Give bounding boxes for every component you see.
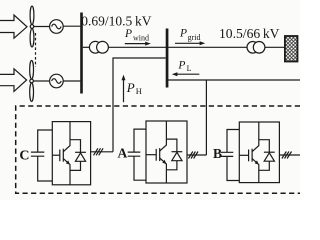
converter B box: [239, 122, 279, 183]
wire busbar to transformer T1: [83, 46, 90, 48]
converter A output wire: [187, 154, 206, 156]
wind turbine WT1 hub: [30, 25, 34, 29]
arrow P_L: [176, 73, 199, 75]
capacitor C1 plates: [31, 152, 44, 156]
IGBT Q-A emitter: [160, 158, 167, 183]
wind inflow arrow turbine 1: [0, 15, 27, 38]
IGBT Q-B body bar: [251, 149, 253, 162]
diode D-A triangle: [172, 152, 182, 160]
converter C output wire: [91, 151, 113, 153]
IGBT Q-C emitter: [63, 159, 70, 185]
diode D-A cathode bar: [172, 151, 183, 153]
branch wire to converter C (P_H path): [113, 58, 166, 152]
generator G2: [50, 74, 64, 88]
IGBT Q-A collector: [160, 121, 167, 151]
capacitor A plates: [128, 152, 141, 156]
svg-text:C: C: [19, 148, 29, 163]
IGBT Q-C gate bar: [59, 150, 61, 162]
arrow P_H: [123, 80, 125, 102]
diode D-A anode wire: [166, 161, 177, 170]
dashed enclosure energy storage system: [16, 106, 300, 193]
grid equivalent network: [285, 36, 298, 62]
IGBT Q-B emitter: [252, 159, 259, 183]
wire G1 to LV busbar: [63, 25, 80, 27]
diode D-C triangle: [75, 153, 85, 161]
capacitor B plates: [221, 152, 234, 156]
IGBT Q-B emitter arrowhead: [255, 160, 259, 164]
riser wire to converter A: [205, 80, 207, 155]
diode D-A top wire: [166, 139, 177, 152]
IGBT Q-C gate lead: [52, 154, 60, 156]
wire T2 to grid: [265, 46, 285, 48]
generator G1: [50, 20, 64, 34]
three-phase marks converter C: [94, 148, 104, 155]
svg-text:P: P: [124, 28, 132, 40]
storage bus wire (P_L path): [167, 79, 300, 81]
dashed line more turbines: [35, 33, 37, 67]
diode D-C cathode bar: [75, 151, 86, 153]
svg-text:P: P: [177, 60, 185, 72]
converter unit C: [31, 122, 113, 185]
diode D-B triangle: [264, 153, 274, 161]
diode D-B top wire: [259, 140, 270, 153]
svg-text:wind: wind: [133, 33, 149, 42]
wire G2 to LV busbar: [63, 80, 80, 82]
wire WT2 hub to generator G2: [33, 80, 49, 82]
wind turbine WT2 hub: [30, 79, 34, 83]
wind turbine WT1 rotor blade upper: [30, 6, 34, 24]
arrow P_grid: [175, 42, 201, 44]
IGBT Q-B collector: [252, 122, 259, 152]
junction busbar 10.5 kV: [166, 29, 169, 88]
svg-text:grid: grid: [188, 33, 201, 42]
diode D-C top wire: [70, 140, 81, 153]
diode D-B cathode bar: [264, 151, 275, 153]
svg-text:L: L: [187, 64, 192, 73]
svg-text:A: A: [118, 145, 128, 160]
IGBT Q-A body bar: [159, 148, 161, 161]
IGBT Q-C collector: [63, 122, 70, 152]
capacitor B leads: [227, 130, 239, 181]
LV busbar 0.69 kV: [80, 13, 83, 94]
IGBT Q-A gate lead: [146, 154, 156, 156]
three-phase marks converter B: [282, 152, 292, 159]
wind inflow arrow turbine 2: [0, 69, 27, 92]
wind turbine WT1 rotor blade lower: [30, 29, 34, 47]
IGBT Q-B gate lead: [239, 154, 248, 156]
svg-text:P: P: [126, 80, 135, 95]
arrow P_wind: [125, 43, 147, 45]
capacitor C1 leads: [38, 130, 53, 181]
three-phase marks converter A: [188, 152, 198, 159]
main wire T1 to junction bar to T2: [108, 46, 247, 48]
IGBT Q-A emitter arrowhead: [162, 160, 166, 164]
IGBT Q-C emitter arrowhead: [66, 160, 70, 164]
converter unit B: [221, 122, 300, 183]
svg-text:0.69/10.5 kV: 0.69/10.5 kV: [81, 13, 151, 28]
svg-text:10.5/66 kV: 10.5/66 kV: [219, 26, 280, 41]
capacitor A leads: [134, 129, 146, 180]
wind turbine WT2 rotor blade lower: [30, 83, 34, 101]
transformer T2 10.5/66 kV: [247, 42, 259, 54]
diode D-C anode wire: [70, 161, 81, 170]
wind turbine WT2 rotor blade upper: [30, 60, 34, 78]
svg-text:B: B: [213, 146, 222, 161]
svg-text:H: H: [136, 86, 142, 96]
svg-text:P: P: [179, 28, 187, 40]
IGBT Q-C body bar: [62, 149, 64, 162]
transformer T1 0.69/10.5 kV: [89, 41, 101, 53]
diode D-B anode wire: [259, 161, 270, 170]
converter A box: [146, 121, 187, 183]
converter C box: [52, 122, 90, 185]
wire WT1 hub to generator G1: [34, 26, 50, 28]
IGBT Q-B gate bar: [248, 150, 250, 162]
converter B output wire: [279, 154, 300, 156]
converter unit A: [128, 121, 207, 183]
IGBT Q-A gate bar: [155, 149, 157, 161]
